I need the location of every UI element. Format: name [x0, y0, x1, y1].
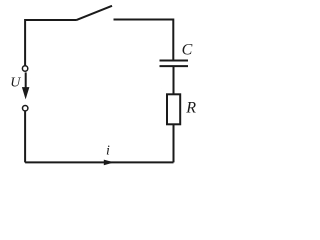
svg-text:U: U [10, 76, 21, 91]
svg-text:R: R [185, 100, 196, 117]
svg-text:C: C [182, 42, 193, 59]
svg-text:i: i [106, 144, 110, 159]
